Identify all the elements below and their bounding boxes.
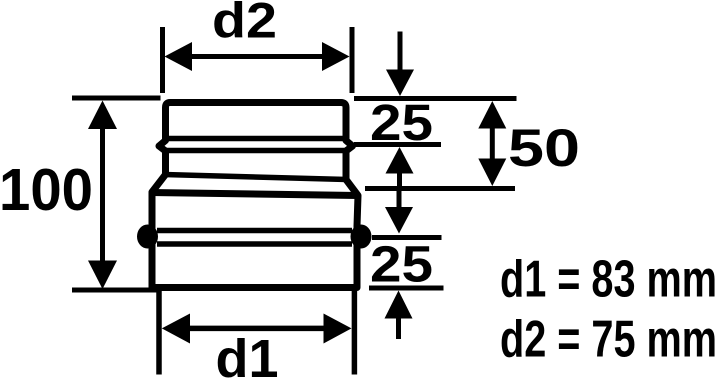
100 top arrowhead: [88, 101, 117, 130]
lower 25 down arrowhead: [385, 207, 413, 234]
upper 25 up arrowhead: [386, 147, 414, 174]
d1 dimension line: [178, 326, 337, 332]
svg-text:d1 = 83 mm: d1 = 83 mm: [500, 251, 717, 309]
d2 right arrowhead: [322, 42, 350, 71]
right top pointer stem: [398, 32, 403, 73]
100 dimension line: [100, 115, 105, 275]
d2 left extension line: [160, 27, 165, 93]
100 bottom arrowhead: [88, 261, 117, 290]
svg-text:25: 25: [370, 236, 433, 293]
bead line D: [157, 228, 352, 234]
d1 right arrowhead: [324, 314, 352, 344]
right bead bulge: [351, 225, 372, 249]
d2 dimension line: [180, 54, 335, 59]
svg-text:d2 = 75 mm: d2 = 75 mm: [500, 311, 717, 369]
upper 25 arrow stem: [397, 171, 402, 186]
reducer body outline: [152, 103, 358, 288]
svg-text:d2: d2: [212, 0, 277, 49]
right level line 2: [354, 142, 441, 147]
100 top extension line: [72, 96, 161, 101]
shoulder line C: [164, 175, 347, 180]
right level line 4: [372, 235, 442, 240]
lower 25 up arrow stem: [396, 316, 401, 339]
right level line 3: [365, 186, 515, 191]
left bead bulge: [137, 225, 158, 249]
right top pointer arrowhead: [386, 70, 414, 97]
bead line E: [157, 241, 352, 247]
right level line 1: [354, 96, 517, 101]
d2 right extension line: [350, 27, 355, 93]
d2 left arrowhead: [165, 42, 193, 71]
svg-text:50: 50: [508, 119, 580, 178]
svg-text:100: 100: [0, 157, 93, 223]
lower cylinder top edge: [151, 193, 358, 196]
lower 25 up arrowhead: [385, 291, 413, 319]
lower 25 pointer stem: [397, 191, 402, 212]
100 bottom extension line: [72, 288, 157, 293]
d1 left arrowhead: [162, 314, 190, 344]
50 dimension stem: [490, 126, 495, 161]
ridge line A: [164, 136, 347, 142]
50 up arrowhead: [478, 101, 506, 129]
svg-text:d1: d1: [216, 329, 279, 382]
ridge line B: [164, 148, 347, 154]
d1 left extension line: [156, 291, 162, 375]
d1 right extension line: [352, 291, 358, 375]
50 down arrowhead: [478, 159, 506, 187]
right level line 5: [369, 286, 444, 291]
